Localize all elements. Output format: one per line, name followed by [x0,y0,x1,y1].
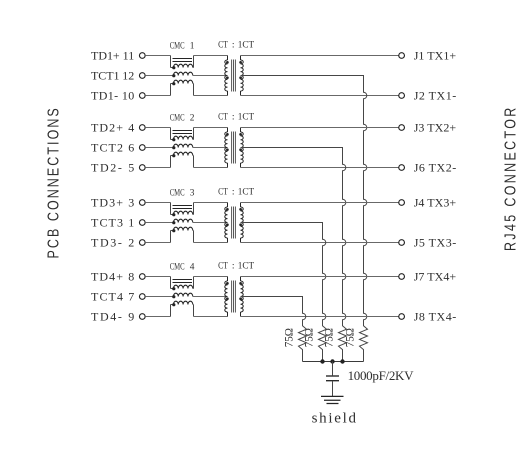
transformer T3 secondary [240,203,242,208]
svg-text:J1 TX1+: J1 TX1+ [414,48,457,62]
wire [194,127,228,129]
transformer T3 primary [227,203,229,208]
wire [145,55,170,57]
svg-text:3: 3 [190,188,195,198]
wire [145,276,170,278]
phase dot [172,303,175,306]
phase dot [226,297,229,300]
svg-text:TD2- 5: TD2- 5 [91,160,134,174]
phase dot [226,208,229,211]
wire [332,381,334,396]
svg-text:75Ω: 75Ω [304,328,316,347]
transformer T1 core [231,60,233,92]
junction [330,359,334,363]
wire [145,127,170,129]
choke CMC 1 winding [173,72,192,75]
transformer T1 primary [227,56,229,61]
svg-text:J3 TX2+: J3 TX2+ [414,120,457,134]
svg-text:RJ45 CONNECTOR: RJ45 CONNECTOR [502,105,520,251]
wire [170,84,172,96]
svg-text:1000pF/2KV: 1000pF/2KV [348,368,415,383]
svg-text:TD3+ 3: TD3+ 3 [91,195,134,209]
svg-text:1: 1 [190,41,195,51]
transformer T4 secondary [240,277,242,282]
svg-text::: : [232,111,235,122]
phase dot [172,287,175,290]
wire [332,362,334,376]
choke CMC 1 winding [171,83,174,85]
terminal TD2+ [139,125,145,131]
svg-text:TCT1 12: TCT1 12 [91,68,134,82]
terminal J2 [399,93,405,99]
svg-text:75Ω: 75Ω [284,328,296,347]
wire [241,167,399,169]
terminal J4 [399,200,405,206]
svg-text:CMC: CMC [170,261,185,271]
transformer T4 primary [227,277,229,282]
wire center tap 1 to resistor R1 75ohm [241,76,368,362]
svg-text:1CT: 1CT [238,261,255,271]
svg-text::: : [232,260,235,271]
svg-text:1CT: 1CT [238,187,255,197]
choke CMC 3 winding [171,230,174,232]
choke CMC 3 winding [173,219,192,222]
phase dot [239,76,242,79]
wire [194,276,228,278]
svg-text:TD1+ 11: TD1+ 11 [91,48,134,62]
svg-text::: : [232,39,235,50]
svg-text:TD2+ 4: TD2+ 4 [91,120,134,134]
wire [145,147,173,149]
wire [145,316,170,318]
wire [194,316,228,318]
junction [320,359,324,363]
wire [192,67,195,69]
terminal TCT4 [139,294,145,300]
transformer T2 secondary [240,128,242,133]
terminal TD2- [139,165,145,171]
wire [241,55,399,57]
svg-text:J6 TX2-: J6 TX2- [414,160,457,174]
phase dot [226,133,229,136]
wire [145,95,170,97]
ground shield [321,395,344,397]
wire [241,202,399,204]
phase dot [226,223,229,226]
svg-text:1CT: 1CT [238,40,255,50]
choke CMC 2 winding [173,144,192,147]
wire [241,316,399,318]
wire [193,222,228,224]
svg-text:75Ω: 75Ω [345,328,357,347]
terminal TD3- [139,240,145,246]
wire [170,277,172,289]
wire [241,95,399,97]
terminal TD4- [139,314,145,320]
terminal J3 [399,125,405,131]
wire [192,288,195,290]
phase dot [172,213,175,216]
phase dot [172,138,175,141]
wire [170,56,172,68]
phase dot [239,208,242,211]
phase dot [239,148,242,151]
svg-text:CMC: CMC [170,112,185,122]
phase dot [226,148,229,151]
choke CMC 2 winding [171,139,174,141]
svg-text:TD3- 2: TD3- 2 [91,235,134,249]
svg-text:J7 TX4+: J7 TX4+ [414,269,457,283]
wire [170,156,172,168]
svg-text:CT: CT [218,185,228,196]
junction [340,359,344,363]
svg-text:TD1- 10: TD1- 10 [91,88,134,102]
choke CMC 1 core [173,58,193,60]
svg-text:shield: shield [312,411,357,427]
wire [145,222,173,224]
transformer T1 secondary [240,56,242,61]
svg-text:CT: CT [218,38,228,49]
svg-text:J5 TX3-: J5 TX3- [414,235,457,249]
transformer T2 core [231,132,233,164]
wire [192,214,195,216]
wire [192,139,195,141]
phase dot [172,66,175,69]
svg-text::: : [232,186,235,197]
wire [194,242,228,244]
transformer T2 primary [227,128,229,133]
wire [192,155,195,157]
wire [192,230,195,232]
terminal TD3+ [139,200,145,206]
wire [145,242,170,244]
phase dot [172,154,175,157]
svg-text:TD4- 9: TD4- 9 [91,309,134,323]
capacitor C1 1000pF/2KV [326,375,339,377]
choke CMC 4 core [173,279,193,281]
svg-text:PCB CONNECTIONS: PCB CONNECTIONS [45,106,63,258]
wire [192,83,195,85]
phase dot [172,295,175,298]
terminal TCT2 [139,145,145,151]
svg-text:2: 2 [190,113,195,123]
wire [170,231,172,243]
svg-text:1CT: 1CT [238,112,255,122]
wire [170,128,172,140]
wire [145,75,173,77]
terminal TD1- [139,93,145,99]
choke CMC 1 winding [171,67,174,69]
svg-text:TCT4 7: TCT4 7 [91,289,134,303]
phase dot [172,74,175,77]
svg-text:J4 TX3+: J4 TX3+ [414,195,457,209]
svg-text:TD4+ 8: TD4+ 8 [91,269,134,283]
wire [193,75,228,77]
wire [192,304,195,306]
wire [241,127,399,129]
phase dot [172,221,175,224]
wire center tap 4 to resistor R4 75ohm [241,297,307,362]
wire center tap 3 to resistor R3 75ohm [241,223,327,362]
svg-text:CMC: CMC [170,187,185,197]
wire [194,95,228,97]
wire [241,276,399,278]
svg-text:4: 4 [190,262,195,272]
svg-text:TCT2 6: TCT2 6 [91,140,134,154]
terminal TD1+ [139,53,145,59]
wire [145,296,173,298]
phase dot [172,229,175,232]
svg-text:CT: CT [218,259,228,270]
choke CMC 3 winding [171,214,174,216]
wire [241,242,399,244]
svg-text:CT: CT [218,110,228,121]
svg-text:TCT3 1: TCT3 1 [91,215,134,229]
terminal TCT1 [139,73,145,79]
choke CMC 4 winding [171,288,174,290]
phase dot [239,223,242,226]
phase dot [226,61,229,64]
transformer T4 core [231,281,233,313]
terminal J5 [399,240,405,246]
phase dot [226,282,229,285]
terminal TCT3 [139,220,145,226]
terminal TD4+ [139,274,145,280]
svg-text:CMC: CMC [170,40,185,50]
choke CMC 2 winding [171,155,174,157]
wire [170,305,172,317]
phase dot [226,76,229,79]
choke CMC 3 core [173,205,193,207]
terminal J6 [399,165,405,171]
phase dot [239,282,242,285]
wire [145,202,170,204]
phase dot [239,61,242,64]
phase dot [239,133,242,136]
svg-text:J8 TX4-: J8 TX4- [414,309,457,323]
svg-text:75Ω: 75Ω [324,328,336,347]
wire center tap 2 to resistor R2 75ohm [241,148,347,362]
transformer T3 core [231,207,233,239]
phase dot [172,146,175,149]
phase dot [239,297,242,300]
choke CMC 4 winding [171,304,174,306]
wire [194,167,228,169]
terminal J1 [399,53,405,59]
phase dot [172,82,175,85]
terminal J7 [399,274,405,280]
choke CMC 2 core [173,130,193,132]
svg-text:J2 TX1-: J2 TX1- [414,88,457,102]
wire [194,55,228,57]
wire [145,167,170,169]
wire [170,203,172,215]
terminal J8 [399,314,405,320]
choke CMC 4 winding [173,293,192,296]
wire [194,202,228,204]
wire [193,296,228,298]
wire [193,147,228,149]
wire resistor bus [303,361,364,363]
